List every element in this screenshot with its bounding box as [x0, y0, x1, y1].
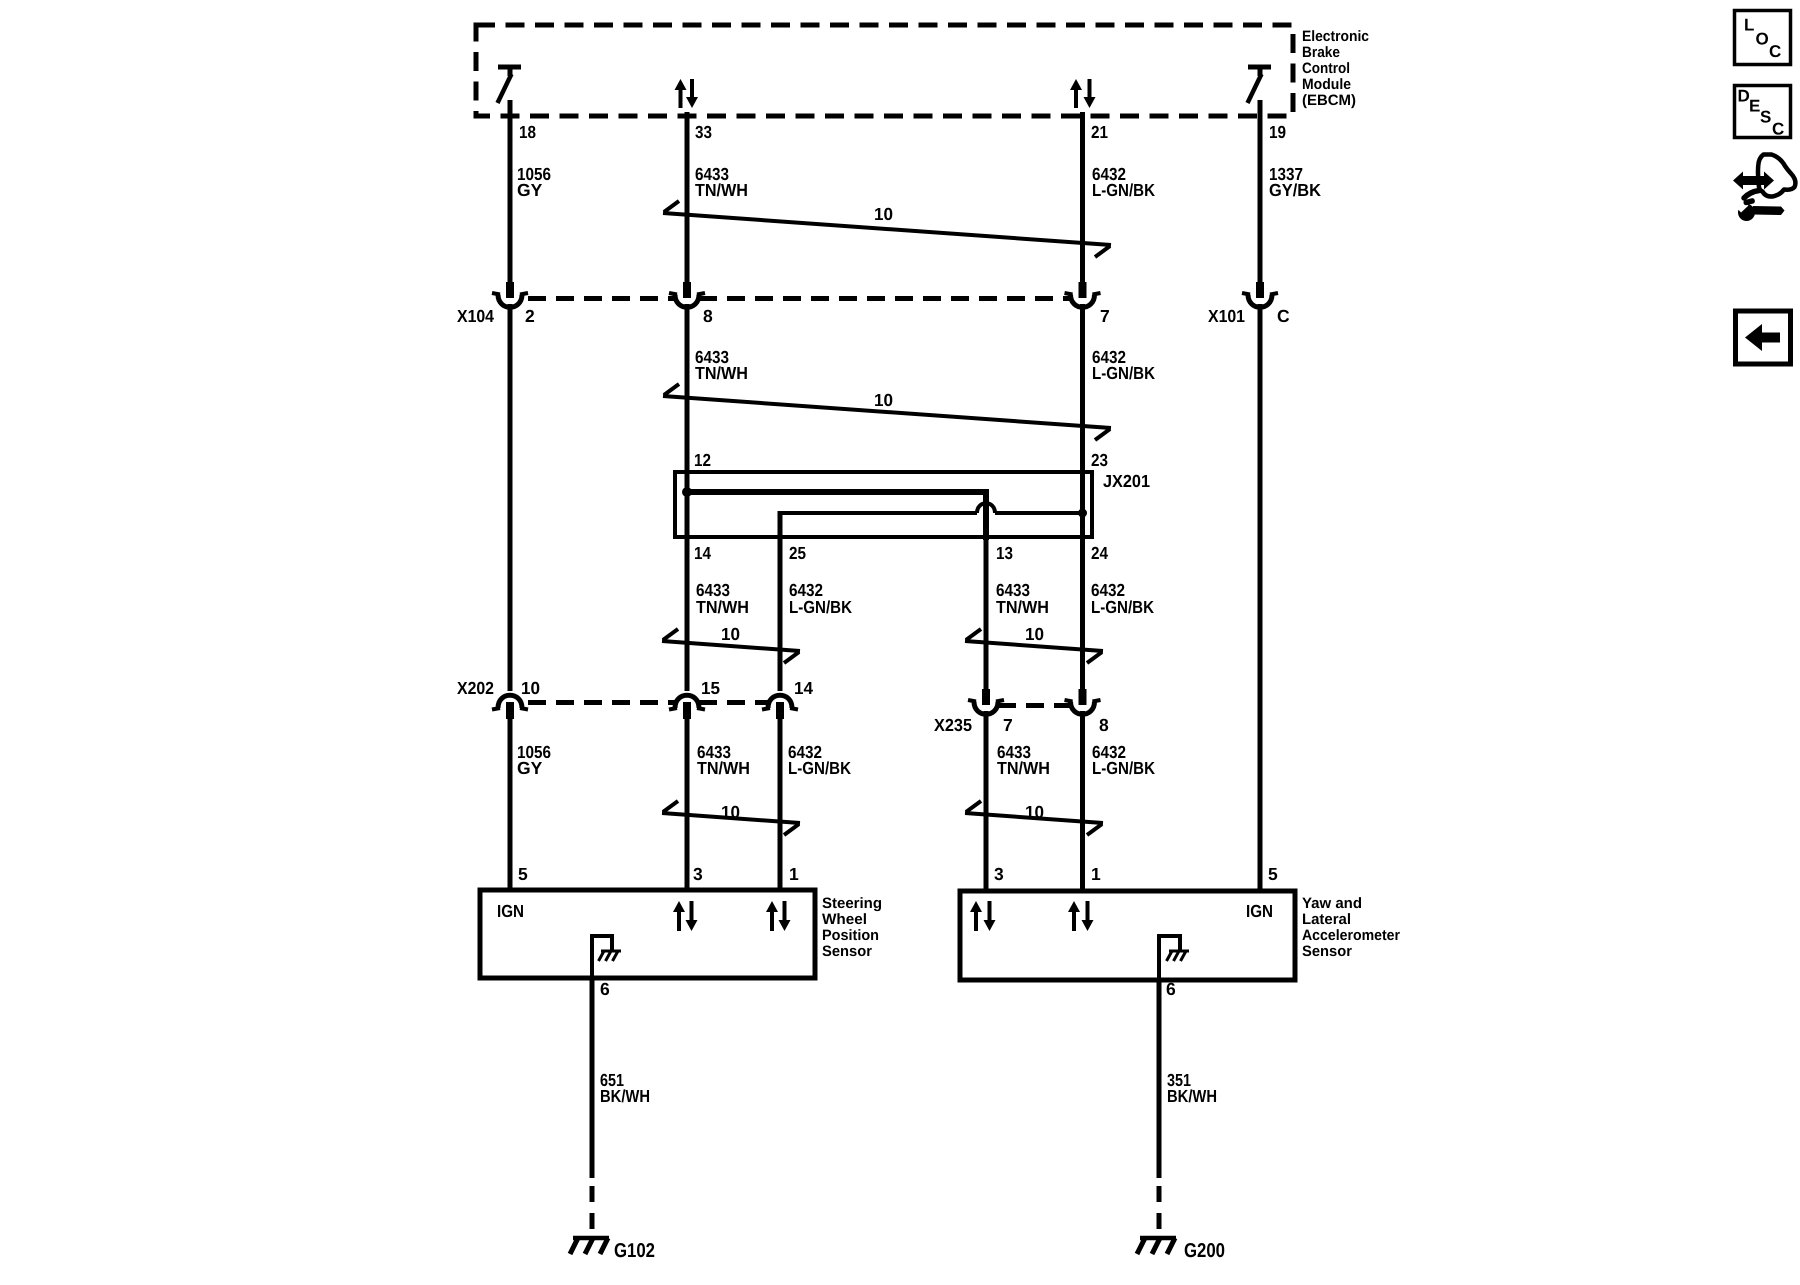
- svg-text:Module: Module: [1302, 76, 1351, 93]
- svg-text:Control: Control: [1302, 60, 1350, 77]
- svg-text:(EBCM): (EBCM): [1302, 92, 1356, 109]
- svg-text:O: O: [1756, 30, 1769, 49]
- svg-text:10: 10: [721, 624, 740, 644]
- svg-text:L-GN/BK: L-GN/BK: [1092, 363, 1155, 383]
- svg-text:6: 6: [600, 979, 610, 999]
- svg-text:L-GN/BK: L-GN/BK: [1092, 758, 1155, 778]
- svg-text:18: 18: [519, 122, 536, 142]
- svg-text:21: 21: [1091, 122, 1108, 142]
- svg-text:C: C: [1769, 42, 1781, 61]
- svg-text:13: 13: [996, 543, 1013, 563]
- svg-text:15: 15: [701, 678, 720, 698]
- svg-text:E: E: [1749, 97, 1760, 116]
- svg-text:10: 10: [874, 390, 893, 410]
- svg-text:33: 33: [695, 122, 712, 142]
- svg-text:1: 1: [1091, 864, 1101, 884]
- svg-text:GY: GY: [517, 758, 543, 778]
- svg-text:2: 2: [525, 306, 535, 326]
- svg-text:24: 24: [1091, 543, 1108, 563]
- svg-text:GY: GY: [517, 180, 543, 200]
- svg-text:JX201: JX201: [1103, 471, 1150, 491]
- svg-text:10: 10: [874, 204, 893, 224]
- svg-text:19: 19: [1269, 122, 1286, 142]
- svg-text:Steering: Steering: [822, 895, 882, 912]
- svg-text:5: 5: [518, 864, 528, 884]
- svg-text:10: 10: [721, 802, 740, 822]
- svg-text:10: 10: [521, 678, 540, 698]
- svg-text:C: C: [1772, 120, 1784, 139]
- svg-text:Position: Position: [822, 927, 879, 944]
- svg-text:L-GN/BK: L-GN/BK: [1091, 597, 1154, 617]
- svg-text:GY/BK: GY/BK: [1269, 180, 1321, 200]
- svg-text:X202: X202: [457, 678, 494, 698]
- svg-text:6: 6: [1166, 979, 1176, 999]
- svg-text:L: L: [1744, 16, 1754, 35]
- svg-text:Electronic: Electronic: [1302, 28, 1369, 45]
- svg-text:TN/WH: TN/WH: [697, 758, 750, 778]
- svg-text:X235: X235: [934, 715, 972, 735]
- svg-text:14: 14: [694, 543, 711, 563]
- svg-text:TN/WH: TN/WH: [696, 597, 749, 617]
- svg-text:L-GN/BK: L-GN/BK: [789, 597, 852, 617]
- svg-text:25: 25: [789, 543, 806, 563]
- svg-text:G102: G102: [614, 1240, 655, 1262]
- svg-text:BK/WH: BK/WH: [1167, 1086, 1217, 1106]
- svg-text:Sensor: Sensor: [822, 943, 872, 960]
- svg-text:7: 7: [1100, 306, 1110, 326]
- svg-text:Yaw and: Yaw and: [1302, 895, 1362, 912]
- svg-text:IGN: IGN: [497, 901, 524, 921]
- svg-text:X101: X101: [1208, 306, 1245, 326]
- svg-text:10: 10: [1025, 624, 1044, 644]
- svg-text:IGN: IGN: [1246, 901, 1273, 921]
- svg-text:BK/WH: BK/WH: [600, 1086, 650, 1106]
- svg-text:TN/WH: TN/WH: [695, 180, 748, 200]
- svg-text:1: 1: [789, 864, 799, 884]
- svg-text:5: 5: [1268, 864, 1278, 884]
- svg-text:Sensor: Sensor: [1302, 943, 1352, 960]
- svg-text:3: 3: [994, 864, 1004, 884]
- svg-text:X104: X104: [457, 306, 494, 326]
- svg-text:C: C: [1277, 306, 1290, 326]
- svg-text:8: 8: [1099, 715, 1109, 735]
- svg-text:3: 3: [693, 864, 703, 884]
- svg-text:Accelerometer: Accelerometer: [1302, 927, 1400, 944]
- svg-text:TN/WH: TN/WH: [996, 597, 1049, 617]
- svg-text:8: 8: [703, 306, 713, 326]
- svg-text:14: 14: [794, 678, 813, 698]
- svg-text:10: 10: [1025, 802, 1044, 822]
- svg-text:TN/WH: TN/WH: [695, 363, 748, 383]
- svg-text:7: 7: [1003, 715, 1013, 735]
- svg-text:L-GN/BK: L-GN/BK: [788, 758, 851, 778]
- svg-text:S: S: [1760, 108, 1771, 127]
- svg-text:12: 12: [694, 450, 711, 470]
- svg-text:TN/WH: TN/WH: [997, 758, 1050, 778]
- svg-text:L-GN/BK: L-GN/BK: [1092, 180, 1155, 200]
- svg-text:23: 23: [1091, 450, 1108, 470]
- svg-text:G200: G200: [1184, 1240, 1225, 1262]
- svg-text:D: D: [1738, 87, 1750, 106]
- svg-text:Brake: Brake: [1302, 44, 1340, 61]
- svg-text:Wheel: Wheel: [822, 911, 867, 928]
- svg-text:Lateral: Lateral: [1302, 911, 1351, 928]
